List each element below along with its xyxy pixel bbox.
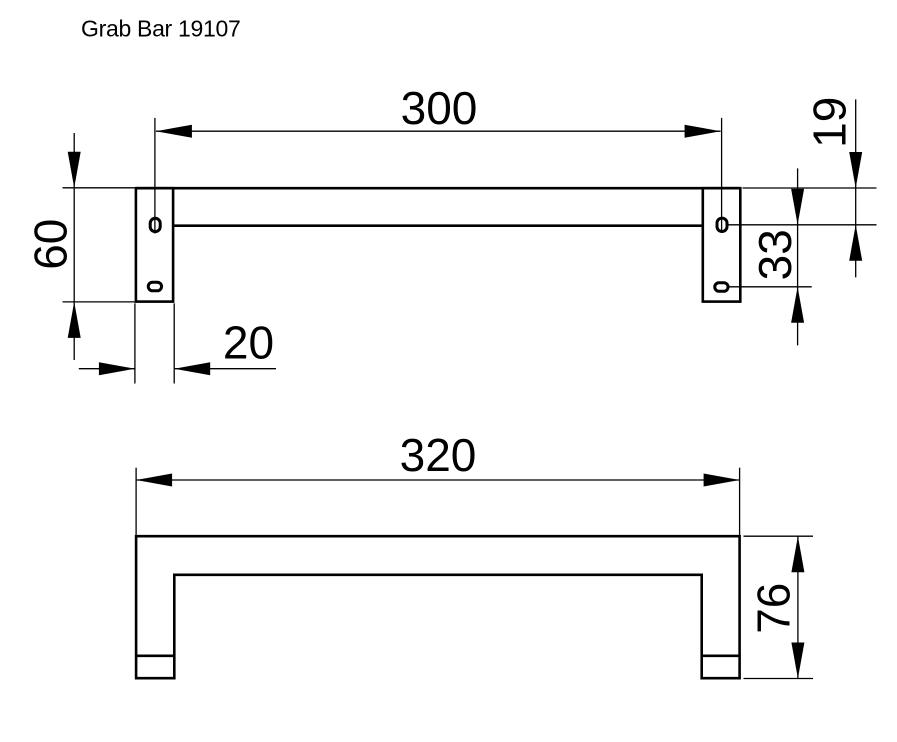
- dim 19 dimension line: [855, 99, 857, 277]
- dim 60 arrow down: [68, 152, 81, 188]
- dim 60 extension line top: [63, 187, 135, 189]
- dim 33 arrow down: [791, 189, 804, 225]
- left plate lower slot: [148, 282, 161, 291]
- dim 76 arrow down: [791, 643, 804, 679]
- dim 300 extension line left: [154, 118, 156, 234]
- top view: bar bottom edge: [173, 224, 703, 227]
- dim 320 arrow left: [136, 474, 172, 487]
- dim 300 arrow left: [156, 125, 192, 138]
- bottom view: left foot line: [136, 654, 174, 657]
- dim 33 arrow up: [791, 287, 804, 323]
- dim 76 extension line top: [744, 535, 814, 537]
- dim 300 extension line right: [721, 118, 723, 233]
- dim 19 extension line lower (upper slot centerline): [728, 224, 877, 226]
- dim 20 extension line left: [134, 303, 136, 383]
- dim 300 arrow right: [685, 125, 721, 138]
- dim 60 dimension line: [73, 133, 75, 360]
- dim 60 extension line bottom: [63, 301, 135, 303]
- svg-text:76: 76: [747, 583, 799, 634]
- svg-text:320: 320: [400, 429, 477, 481]
- dim 19 arrow up: [849, 225, 862, 261]
- dim 20 dimension line left part: [79, 368, 135, 370]
- bottom view: grab bar outline: [136, 536, 740, 678]
- svg-text:300: 300: [401, 82, 478, 134]
- dim 20 arrow right-pointing: [99, 362, 135, 375]
- dim 320 dimension line: [136, 479, 740, 481]
- dim 320 extension line left: [135, 468, 137, 535]
- dim 76 extension line bottom: [744, 678, 814, 680]
- left plate upper slot: [150, 218, 160, 231]
- dim 33 extension line (lower slot centerline): [728, 286, 812, 288]
- dim 19 arrow down: [849, 152, 862, 188]
- dim 320 arrow right: [704, 474, 740, 487]
- dim 20 arrow left-pointing: [174, 362, 210, 375]
- svg-text:60: 60: [24, 219, 76, 270]
- svg-text:20: 20: [223, 316, 274, 368]
- dim 300 dimension line: [156, 130, 721, 132]
- bottom view: right foot line: [702, 654, 740, 657]
- dim 76 dimension line: [797, 536, 799, 678]
- svg-text:Grab Bar 19107: Grab Bar 19107: [81, 15, 240, 41]
- svg-text:19: 19: [803, 97, 855, 148]
- right plate lower slot: [715, 283, 728, 292]
- top view: bar top edge: [136, 187, 740, 190]
- dim 19 extension line upper: [743, 187, 877, 189]
- svg-text:33: 33: [749, 229, 801, 280]
- dim 33 dimension line: [797, 168, 799, 345]
- dim 320 extension line right: [739, 468, 741, 535]
- top view: right mounting plate: [703, 188, 741, 301]
- top view: left mounting plate: [136, 188, 173, 301]
- dim 20 extension line right: [173, 303, 175, 383]
- right plate upper slot: [717, 218, 727, 231]
- dim 20 dimension line right part: [174, 368, 276, 370]
- dim 60 arrow up: [68, 302, 81, 338]
- dim 76 arrow up: [791, 536, 804, 572]
